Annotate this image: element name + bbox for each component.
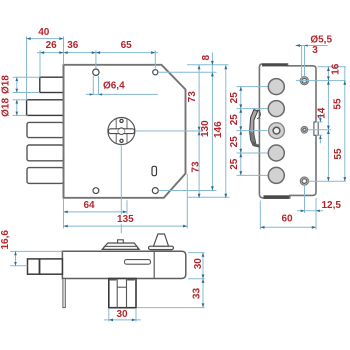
svg-text:30: 30	[116, 309, 128, 320]
svg-text:33: 33	[192, 288, 203, 300]
svg-text:36: 36	[67, 40, 79, 51]
svg-text:8: 8	[201, 54, 212, 60]
svg-text:60: 60	[281, 214, 293, 225]
svg-text:Ø18: Ø18	[0, 98, 11, 117]
svg-text:64: 64	[83, 200, 95, 211]
svg-text:55: 55	[333, 98, 344, 110]
svg-text:12,5: 12,5	[321, 200, 341, 211]
svg-text:Ø18: Ø18	[0, 75, 11, 94]
svg-text:Ø5,5: Ø5,5	[310, 34, 332, 45]
svg-text:65: 65	[121, 40, 133, 51]
svg-text:3: 3	[312, 45, 318, 56]
svg-text:Ø6,4: Ø6,4	[103, 81, 125, 92]
svg-text:25: 25	[229, 136, 240, 148]
svg-text:130: 130	[200, 120, 211, 137]
svg-text:26: 26	[46, 40, 58, 51]
svg-text:30: 30	[193, 258, 204, 270]
svg-text:25: 25	[229, 158, 240, 170]
svg-text:40: 40	[38, 27, 50, 38]
svg-text:73: 73	[187, 91, 198, 103]
svg-text:146: 146	[213, 121, 224, 138]
svg-text:55: 55	[333, 148, 344, 160]
svg-text:16,6: 16,6	[0, 230, 11, 250]
svg-text:16: 16	[331, 63, 342, 75]
svg-text:14: 14	[316, 107, 327, 119]
svg-text:25: 25	[229, 114, 240, 126]
svg-text:73: 73	[190, 161, 201, 173]
svg-text:135: 135	[117, 214, 134, 225]
svg-text:25: 25	[229, 92, 240, 104]
